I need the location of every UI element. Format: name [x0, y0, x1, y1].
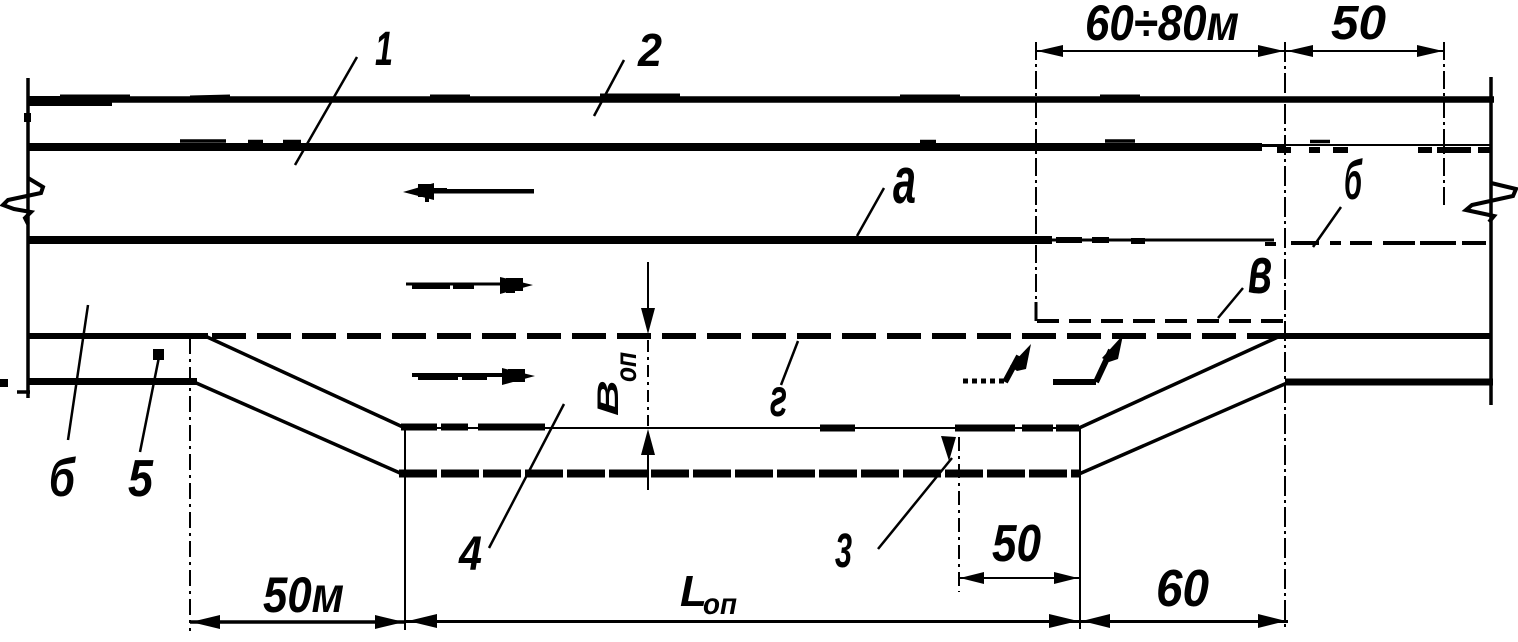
leader b top-right — [1313, 207, 1341, 247]
leader 4 — [489, 404, 564, 548]
traffic arrow left lane — [403, 183, 534, 202]
svg-text:3: 3 — [835, 525, 852, 578]
svg-text:г: г — [770, 368, 787, 428]
svg-text:60÷80м: 60÷80м — [1085, 0, 1239, 51]
leader b bottom-left — [68, 305, 88, 440]
Vop dimension arrows — [641, 308, 655, 455]
road top edge line L1 — [28, 96, 1494, 103]
svg-text:50: 50 — [1331, 0, 1386, 50]
leader a — [857, 188, 884, 236]
leader 2 — [594, 60, 624, 116]
road marking bent arrow 1 — [963, 344, 1031, 382]
extension line x=1036 dash-dot — [1035, 42, 1037, 318]
node 5 dot — [153, 349, 164, 360]
dimension arrows bottom — [191, 614, 1286, 629]
wire dash nubs above L2 — [180, 139, 1330, 143]
road carriageway edge line L2 (left thick part) — [28, 143, 1262, 151]
lane marking bold dashed line (dashes) — [212, 333, 1280, 339]
top dimension line — [1036, 50, 1444, 52]
center line dashed right part — [1265, 243, 1486, 244]
left taper lower diagonal — [194, 382, 400, 473]
traffic arrow added lane — [412, 368, 535, 385]
extension line x=1444 dash-dot — [1443, 42, 1445, 205]
svg-text:50: 50 — [992, 515, 1041, 573]
wire scan dashes above L1 — [60, 95, 1140, 97]
left edge nub — [0, 379, 8, 387]
left break squiggle — [3, 178, 43, 224]
traffic arrow middle lane — [406, 277, 533, 294]
mid 50 dimension line — [959, 577, 1079, 579]
wire L1 left thick blob — [28, 96, 112, 106]
wire dash blobs under right L2 — [1277, 147, 1491, 153]
leader g — [781, 341, 798, 385]
left taper upper diagonal — [205, 336, 405, 428]
right taper upper diagonal — [1079, 337, 1278, 428]
dimension arrows top — [1037, 45, 1443, 57]
leader 3 — [878, 458, 952, 549]
extension line x=1080 solid — [1079, 428, 1081, 629]
bottom dimension line — [190, 620, 406, 624]
svg-text:б: б — [49, 448, 76, 508]
lane marking bold dashed line (left solid part) — [28, 333, 208, 339]
svg-text:1: 1 — [375, 23, 393, 76]
extension line x=1285 long dash-dot — [1284, 42, 1286, 631]
right break squiggle — [1466, 183, 1516, 222]
svg-text:б: б — [1344, 148, 1363, 211]
road marking bent arrow 2 — [1053, 335, 1123, 382]
road axis center line — [28, 236, 1052, 244]
svg-text:60: 60 — [1156, 560, 1209, 618]
dim text Vop vertical — [592, 380, 625, 416]
svg-text:5: 5 — [128, 450, 154, 508]
extension line x=959 dash-dot — [958, 437, 960, 592]
lane marking right solid part — [1278, 333, 1492, 339]
bold dashes on widening line — [401, 427, 1079, 428]
road edge line L2 right thin continuation — [1285, 144, 1491, 146]
widening bottom bold line — [399, 470, 1079, 478]
svg-text:4: 4 — [458, 528, 482, 581]
widening upper thin line — [404, 427, 1079, 429]
dashed rect left vertical tick — [1035, 302, 1038, 321]
Vop vertical dimension line — [647, 262, 649, 308]
leader 5 — [140, 357, 159, 452]
svg-text:в: в — [1248, 233, 1272, 307]
leader 1 — [295, 57, 357, 165]
svg-text:В: В — [592, 380, 625, 416]
left road end foot tick — [17, 390, 30, 394]
leader v — [1218, 288, 1243, 318]
right taper lower diagonal — [1079, 383, 1287, 474]
svg-text:2: 2 — [637, 24, 662, 76]
svg-text:50м: 50м — [263, 567, 344, 623]
extension line x=190 dash-dot — [189, 338, 191, 631]
svg-text:оп: оп — [703, 588, 737, 621]
svg-text:а: а — [893, 143, 916, 217]
dashed marking line "v" rectangle bottom — [1037, 319, 1285, 323]
left road end vertical — [26, 78, 30, 398]
svg-text:оп: оп — [610, 352, 643, 382]
node 3 marker — [941, 436, 956, 461]
lower road edge right segment — [1285, 379, 1493, 386]
right road end vertical — [1489, 77, 1493, 405]
lower road edge left segment — [28, 378, 197, 385]
dimension arrows mid 50 — [960, 572, 1078, 584]
extension line x=405 solid — [404, 428, 406, 630]
